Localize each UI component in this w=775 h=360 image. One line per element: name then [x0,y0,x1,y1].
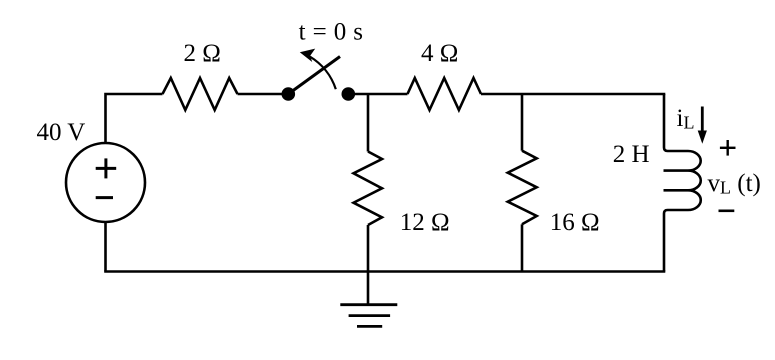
wire top-left from source to R1 [106,94,163,143]
switch SW1 right contact dot [342,87,356,101]
minus sign at vL [719,210,735,213]
resistor R4 16ohm zigzag [508,151,537,225]
wire source bottom lead [104,222,107,272]
inductor L1 2H coil [664,94,701,272]
svg-text:2 H: 2 H [613,141,650,168]
wire branch node A down to R3 [367,94,370,152]
svg-text:vL (t): vL (t) [708,170,761,198]
wire R2 to top-right corner [481,93,665,96]
svg-text:iL: iL [677,105,695,133]
plus sign of V1 [96,158,117,178]
switch SW1 motion arc [310,57,336,90]
plus sign at vL [720,140,736,156]
voltage source V1 circle [66,143,145,222]
wire R3 to bottom rail [367,225,370,272]
minus sign of V1 [96,196,113,199]
wire bottom rail [104,270,665,273]
svg-text:2 Ω: 2 Ω [184,40,221,67]
wire branch node B down to R4 [521,94,524,151]
svg-text:12 Ω: 12 Ω [400,209,450,236]
svg-text:t = 0 s: t = 0 s [299,19,364,46]
svg-text:4 Ω: 4 Ω [421,40,458,67]
switch SW1 arc arrowhead [300,49,315,62]
wire R4 to bottom rail [521,224,524,271]
svg-text:40 V: 40 V [37,119,86,146]
current arrow iL shaft [701,107,704,133]
ground bar 2 [349,314,391,317]
ground bar 1 [340,303,397,306]
wire R1 to switch left contact [238,93,289,96]
resistor R3 12ohm zigzag [354,152,383,226]
ground bar 3 [357,325,382,328]
switch SW1 blade [288,57,340,95]
current arrow iL head [698,131,707,144]
ground stem [367,272,370,305]
resistor R2 4ohm zigzag [408,78,482,110]
resistor R1 2ohm zigzag [163,78,238,110]
wire switch right contact to node A [348,93,407,96]
svg-text:16 Ω: 16 Ω [550,209,600,236]
switch SW1 left contact dot [282,87,296,101]
